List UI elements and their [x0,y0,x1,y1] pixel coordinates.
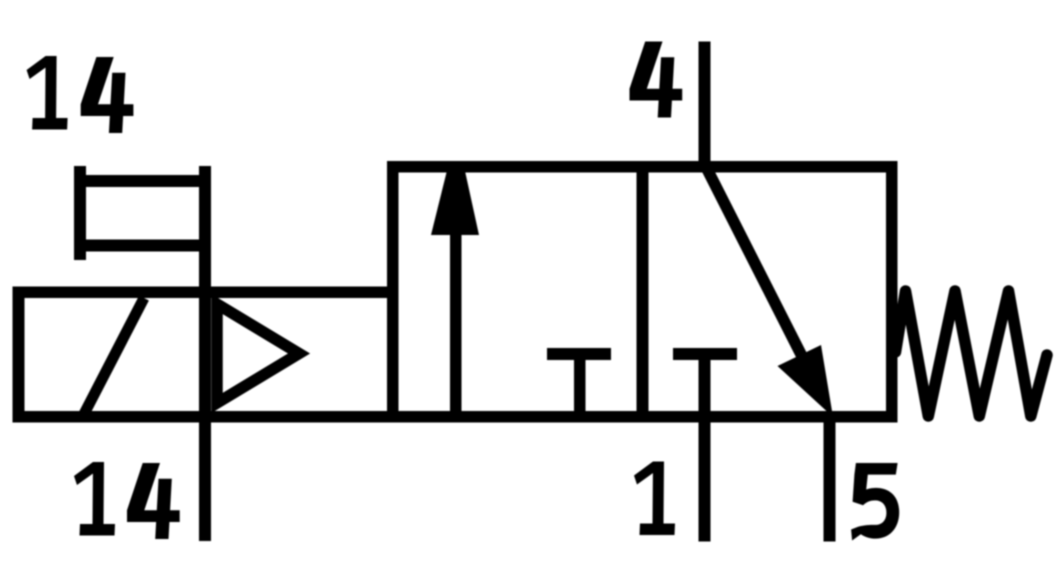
label 5 (bottom) [851,463,899,541]
label 1 (bottom) [634,462,675,536]
label 4 (top) [630,42,683,118]
flow arrow diagonal shaft [705,164,813,376]
flow arrow up shaft [450,232,462,416]
spring [896,291,1048,416]
flow arrow diagonal head [778,345,834,417]
port 5 line [824,416,836,542]
pilot bracket bottom bar [74,240,211,252]
valve body divider [637,166,649,416]
blocked port T2 bar [673,348,737,360]
actuator box left edge [13,287,25,423]
actuator box top edge [13,287,399,299]
pilot triangle [217,304,299,403]
valve body right edge [886,161,898,423]
bottom edge (actuator + valve body) [13,411,898,423]
pilot bracket top bar [74,175,211,187]
pilot stem line (port 14 vertical) [199,166,211,541]
valve body left edge [387,161,399,423]
blocked port T1 bar [547,348,611,360]
blocked port T1 stem [574,354,586,416]
port 4 line [699,42,711,167]
label 14 (bottom left) [74,462,180,539]
label 14 (top left) [27,56,134,133]
port 1 line [699,354,711,542]
manual override slash [84,298,144,414]
pilot port symbol Z (port 14 bracket) left vertical [74,166,86,260]
flow arrow up head [431,167,479,236]
valve body top edge [387,161,898,173]
